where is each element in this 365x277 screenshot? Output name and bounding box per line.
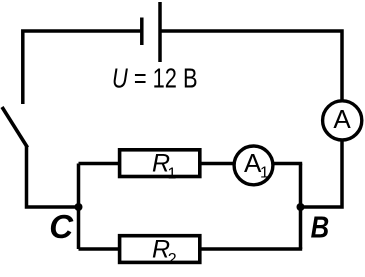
wire: top-right horizontal + right vertical down to ammeter A bbox=[160, 31, 342, 102]
svg-text:U = 12 В: U = 12 В bbox=[112, 63, 198, 94]
wire: node C to resistor R2 (bottom branch) bbox=[79, 247, 120, 251]
value label U = 12 V bbox=[112, 63, 198, 94]
resistor R1 bbox=[120, 150, 200, 183]
wire: left side of parallel branch (vertical) bbox=[77, 164, 81, 250]
svg-text:B: B bbox=[311, 210, 330, 245]
battery short plate (negative) bbox=[140, 18, 144, 46]
switch blade (open) bbox=[2, 107, 28, 148]
ammeter A1 bbox=[234, 146, 273, 185]
wire: resistor R2 to right branch corner bbox=[200, 247, 302, 251]
wire: from ammeter A down then left to node B bbox=[301, 139, 343, 207]
svg-text:C: C bbox=[49, 208, 74, 245]
ammeter A bbox=[323, 101, 362, 140]
svg-text:A: A bbox=[333, 104, 351, 134]
svg-text:1: 1 bbox=[168, 166, 177, 183]
svg-text:2: 2 bbox=[168, 251, 177, 268]
svg-text:1: 1 bbox=[260, 165, 269, 182]
wire: resistor R1 to ammeter A1 bbox=[200, 162, 234, 166]
wire: ammeter A1 to right branch corner bbox=[273, 162, 302, 166]
wire: right side of parallel branch (vertical) bbox=[299, 164, 303, 250]
resistor R2 bbox=[120, 236, 200, 268]
node B label bbox=[311, 210, 330, 245]
node C junction dot bbox=[75, 203, 83, 211]
node B junction dot bbox=[297, 203, 305, 211]
battery long plate (positive) bbox=[158, 2, 162, 62]
wire: node C to resistor R1 bbox=[79, 162, 120, 166]
wire: switch lower contact to node C bbox=[27, 146, 81, 207]
wire: top-left horizontal + left vertical down to switch upper contact bbox=[23, 31, 142, 104]
